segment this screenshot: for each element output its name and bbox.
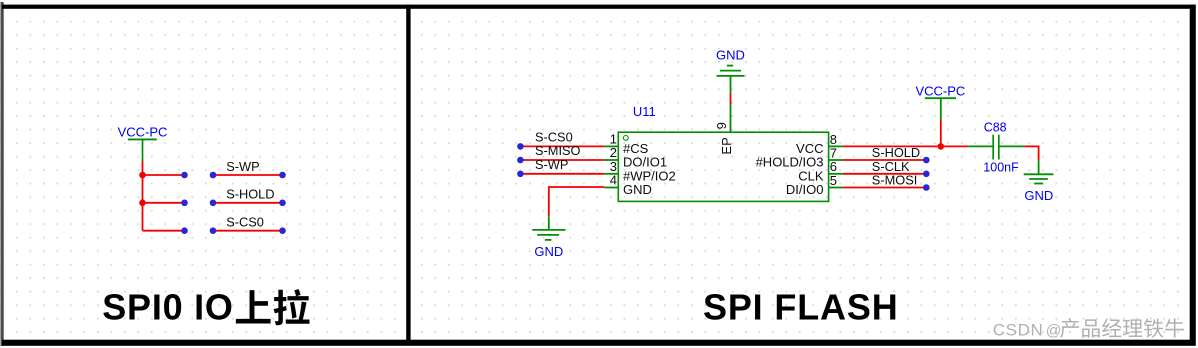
port dot S-CS0 c [279, 227, 286, 234]
port dot S-CLK [923, 171, 930, 178]
pin 5 stub [829, 187, 843, 189]
junction on rail row 1 [139, 172, 146, 179]
svg-text:GND: GND [1024, 188, 1053, 203]
svg-text:SPI FLASH: SPI FLASH [703, 287, 899, 328]
panel divider [406, 5, 410, 341]
svg-text:S-HOLD: S-HOLD [872, 145, 920, 160]
svg-text:U11: U11 [633, 104, 656, 119]
wire S-CLK from pin 6 [843, 173, 926, 175]
IC U11 body [618, 132, 828, 201]
svg-text:VCC-PC: VCC-PC [118, 125, 168, 140]
svg-text:C88: C88 [984, 121, 1007, 135]
wire VCC net pin8 [843, 145, 968, 147]
svg-text:S-MOSI: S-MOSI [872, 173, 918, 188]
svg-text:S-WP: S-WP [535, 157, 568, 172]
wire S-WP labeled segment [213, 174, 283, 176]
svg-text:S-WP: S-WP [226, 159, 259, 174]
wire C88 to GND corner [1024, 146, 1038, 160]
port dot S-HOLD c [279, 200, 286, 207]
outer border bottom [2, 340, 1195, 346]
wire S-HOLD from pin 7 [843, 159, 926, 161]
svg-text:7: 7 [830, 145, 837, 160]
wire S-HOLD labeled segment [213, 202, 283, 204]
port dot S-MOSI [923, 184, 930, 191]
svg-text:SPI0 IO: SPI0 IO [102, 287, 233, 328]
svg-text:GND: GND [623, 182, 652, 197]
wire row S-HOLD left segment [143, 202, 185, 204]
power symbol VCC-PC (right) [915, 84, 965, 120]
pin1 marker circle [623, 136, 628, 141]
svg-text:S-CS0: S-CS0 [226, 215, 264, 230]
svg-text:VCC-PC: VCC-PC [915, 84, 965, 99]
svg-text:100nF: 100nF [983, 160, 1019, 174]
port dot S-HOLD a [181, 200, 188, 207]
svg-text:S-MISO: S-MISO [535, 143, 581, 158]
ground symbol (below U11) [532, 216, 565, 258]
wire EP to GND [730, 93, 732, 105]
svg-text:S-HOLD: S-HOLD [226, 187, 274, 202]
wire S-CS0 to pin 1 [520, 145, 604, 147]
svg-text:9: 9 [714, 122, 729, 129]
pin 8 stub [829, 145, 843, 147]
svg-text:#HOLD/IO3: #HOLD/IO3 [756, 155, 824, 170]
wire row S-CS0 left segment [143, 230, 185, 232]
wire S-MOSI from pin 5 [843, 187, 926, 189]
pin 4 stub [604, 187, 618, 189]
port dot S-WP a [181, 172, 188, 179]
svg-text:CSDN: CSDN [993, 321, 1044, 340]
pin 7 stub [829, 159, 843, 161]
wire S-MISO to pin 2 [520, 159, 604, 161]
outer border top [2, 5, 1195, 9]
port dot S-CS0 b [210, 227, 217, 234]
pin 9 stub [730, 105, 732, 133]
pin 6 stub [829, 173, 843, 175]
wire S-WP to pin 3 [520, 173, 604, 175]
svg-text:EP: EP [719, 137, 734, 154]
svg-text:4: 4 [610, 173, 617, 188]
port dot S-HOLD [923, 157, 930, 164]
port dot S-WP c [279, 172, 286, 179]
svg-text:2: 2 [610, 145, 617, 160]
svg-text:DO/IO1: DO/IO1 [623, 155, 667, 170]
capacitor C88 [968, 121, 1024, 175]
wire S-CS0 labeled segment [213, 230, 283, 232]
pin 3 stub [604, 173, 618, 175]
wire row S-WP left segment [143, 174, 185, 176]
junction on rail row 2 [139, 200, 146, 207]
port dot S-WP [517, 171, 524, 178]
svg-text:GND: GND [534, 244, 563, 259]
pin 2 stub [604, 159, 618, 161]
pin 1 stub [604, 145, 618, 147]
wire VCC-PC drop [940, 119, 942, 146]
junction VCC net [938, 143, 945, 150]
svg-text:DI/IO0: DI/IO0 [786, 182, 824, 197]
title SPI0 IO pull-up [102, 287, 309, 328]
ground symbol (top, EP pad) [716, 47, 745, 93]
port dot S-CS0 a [181, 227, 188, 234]
svg-text:5: 5 [830, 173, 837, 188]
wire vertical VCC rail [142, 161, 144, 231]
watermark CSDN [993, 318, 1184, 339]
wire pin4 to GND [549, 187, 605, 216]
svg-text:@: @ [1046, 323, 1062, 340]
port dot S-CS0 [517, 143, 524, 150]
outer border left [1, 2, 4, 346]
ground symbol (right of C88) [1024, 160, 1054, 203]
outer border right [1190, 5, 1196, 346]
port dot S-WP b [210, 172, 217, 179]
port dot S-HOLD b [210, 200, 217, 207]
port dot S-MISO [517, 157, 524, 164]
svg-text:GND: GND [716, 47, 745, 62]
power symbol VCC-PC (left) [118, 125, 168, 161]
